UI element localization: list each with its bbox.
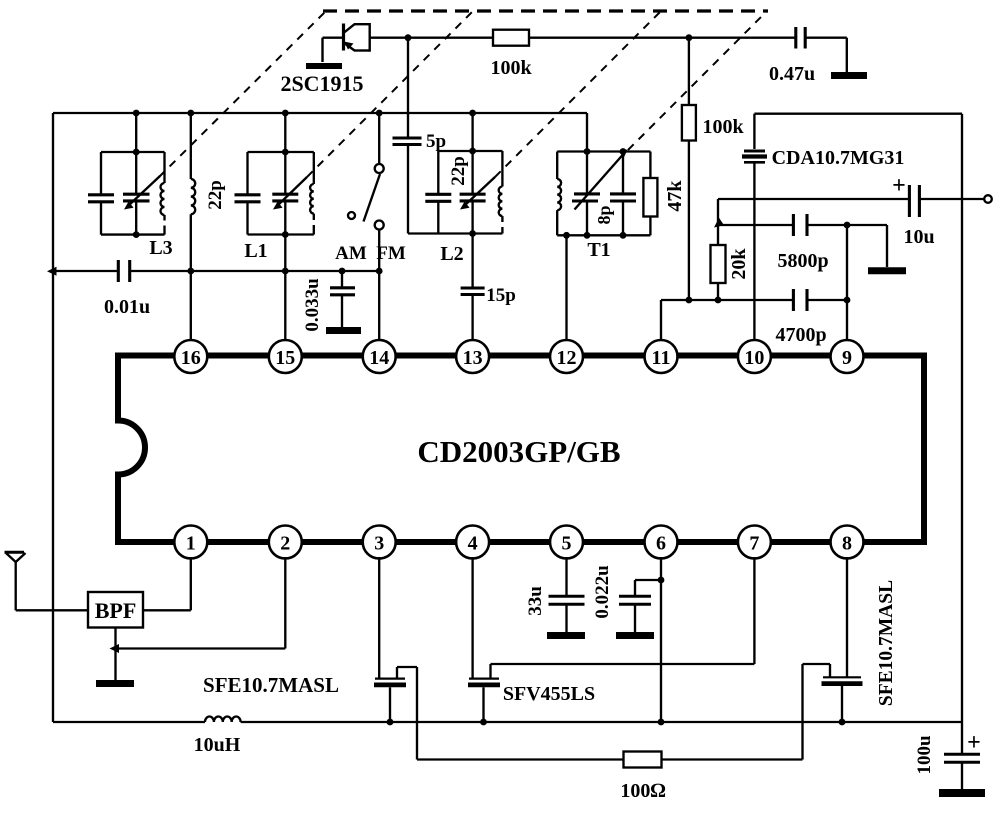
- wire (0.01u rail y=271): [53, 270, 118, 272]
- gang diagonal from L2 varactor: [495, 12, 660, 177]
- terminal (audio output): [984, 195, 992, 203]
- capacitor 0.47u: [794, 27, 797, 49]
- pin 11: [645, 340, 678, 373]
- ground (0.47u): [831, 72, 867, 79]
- capacitor 100u (bottom right): [944, 722, 980, 789]
- ground (0.022u): [616, 632, 654, 639]
- svg-text:4700p: 4700p: [775, 324, 826, 346]
- tank T1 box: [557, 113, 650, 235]
- svg-text:15p: 15p: [486, 285, 516, 306]
- ceramic filter (pin 4) SFV455LS: [468, 557, 500, 722]
- wire (pin 11 riser): [660, 300, 662, 340]
- wire (100 ohm line y=759.5): [417, 758, 624, 760]
- wire (4700p rail y=300): [661, 299, 793, 301]
- svg-text:22p: 22p: [448, 156, 469, 186]
- pin 2: [269, 526, 302, 559]
- wire (pin 2 to BPF node): [116, 647, 286, 649]
- inductor (L1 coil, right edge): [310, 152, 314, 235]
- svg-text:2SC1915: 2SC1915: [280, 71, 363, 96]
- switch AM/FM: [348, 113, 384, 340]
- svg-text:5800p: 5800p: [777, 250, 828, 272]
- node (filter 4 to bottom rail): [480, 719, 487, 726]
- svg-text:33u: 33u: [525, 586, 546, 616]
- wire (transistor output y=37.7): [370, 37, 493, 39]
- svg-text:20k: 20k: [728, 248, 750, 280]
- wire (L2 branch to 15p and pin 13): [471, 201, 473, 288]
- svg-text:3: 3: [374, 533, 384, 555]
- variable capacitor (T1): [572, 150, 628, 236]
- ceramic filter (pin 3) SFE10.7MASL: [374, 557, 417, 722]
- wire (left frame): [52, 113, 54, 722]
- capacitor 22p (L2 left edge): [425, 194, 451, 201]
- svg-text:8p: 8p: [594, 205, 614, 224]
- inductor (T1 coil, left edge): [557, 152, 561, 236]
- svg-text:+: +: [967, 730, 981, 756]
- svg-text:9: 9: [842, 347, 852, 369]
- variable capacitor (L1): [272, 177, 307, 210]
- svg-text:12: 12: [557, 347, 577, 369]
- wire (5800p rail y=225): [718, 224, 793, 226]
- pin 1: [174, 526, 207, 559]
- ceramic filter (pin 8) SFE10.7MASL: [803, 557, 863, 760]
- tank L2 box: [408, 113, 502, 234]
- gang dashed line (mechanical tuning link): [323, 9, 768, 12]
- svg-text:15: 15: [275, 347, 295, 369]
- pin 9: [831, 340, 864, 373]
- pin 4: [456, 526, 489, 559]
- pin 7: [738, 526, 771, 559]
- wire (BPF to pin 1): [143, 609, 191, 611]
- tank L3 box: [101, 113, 165, 235]
- node (T1 junctions): [584, 148, 591, 155]
- pin 13: [456, 340, 489, 373]
- inductor (L2 coil, right edge): [499, 151, 503, 234]
- pin 3: [363, 526, 396, 559]
- node (junction 5800p right): [844, 222, 851, 229]
- pin 14: [363, 340, 396, 373]
- svg-text:T1: T1: [587, 239, 610, 261]
- wire (pin 6 down to bottom rail): [660, 557, 662, 722]
- svg-text:5: 5: [562, 533, 572, 555]
- node (junctions y=300): [686, 297, 693, 304]
- wire (filter 3 tap down to 100ohm line): [416, 667, 418, 760]
- svg-text:7: 7: [749, 533, 759, 555]
- inductor 10uH: [205, 717, 241, 722]
- transistor Q1 2SC1915: [323, 23, 370, 62]
- capacitor (L1 fixed): [235, 195, 261, 202]
- capacitor (L3 fixed): [88, 195, 114, 202]
- svg-text:100Ω: 100Ω: [620, 780, 665, 802]
- pin 16: [174, 340, 207, 373]
- svg-text:0.47u: 0.47u: [769, 63, 815, 85]
- ground (5800p): [868, 267, 906, 274]
- wire (T1 to pin 12): [565, 235, 567, 340]
- svg-text:AM: AM: [335, 243, 367, 264]
- wire (top frame bus y=113): [53, 112, 587, 114]
- svg-text:100k: 100k: [702, 116, 744, 138]
- svg-text:CDA10.7MG31: CDA10.7MG31: [772, 147, 905, 169]
- gang diagonal from L3 varactor: [159, 12, 325, 177]
- wire (bottom frame): [53, 721, 205, 723]
- resistor 100k (horizontal, top): [493, 30, 529, 46]
- svg-text:100k: 100k: [490, 57, 532, 79]
- resistor 100k (vertical): [688, 38, 690, 105]
- node (junctions on y=271 rail): [47, 267, 57, 276]
- node (L3 rail junctions): [133, 149, 140, 156]
- wire (antenna to BPF): [16, 609, 88, 611]
- svg-text:10uH: 10uH: [194, 734, 241, 756]
- wire (L1 branch to pin 15): [284, 201, 286, 340]
- svg-text:14: 14: [369, 347, 389, 369]
- svg-text:6: 6: [656, 533, 666, 555]
- svg-text:22p: 22p: [205, 180, 226, 210]
- ceramic resonator CDA10.7MG31: [742, 114, 767, 340]
- svg-text:CD2003GP/GB: CD2003GP/GB: [417, 434, 620, 469]
- tank L1 box: [248, 113, 314, 235]
- antenna: [5, 552, 26, 610]
- capacitor 5800p: [793, 214, 807, 236]
- gang diagonal from L1 varactor: [307, 12, 472, 177]
- node (BPF junction): [110, 644, 120, 653]
- block BPF: [88, 592, 143, 628]
- node (bus junctions): [133, 110, 140, 117]
- svg-text:0.022u: 0.022u: [592, 565, 613, 619]
- svg-text:13: 13: [463, 347, 483, 369]
- capacitor 10u (output): [909, 185, 984, 217]
- node (L1 rail junctions): [282, 149, 289, 156]
- ground (transistor base): [306, 63, 342, 69]
- wire (CDA top link): [754, 113, 962, 115]
- pin 6: [645, 526, 678, 559]
- inductor 22p branch (to pin 16): [191, 113, 195, 340]
- svg-text:FM: FM: [376, 243, 406, 264]
- potentiometer 20k: [711, 199, 726, 300]
- svg-text:0.033u: 0.033u: [302, 278, 323, 332]
- svg-text:100u: 100u: [914, 735, 935, 775]
- node (junction at 100k branch): [686, 34, 693, 41]
- pin 10: [738, 340, 771, 373]
- capacitor 0.01u: [118, 260, 129, 282]
- wire (right frame): [961, 114, 963, 722]
- svg-text:10u: 10u: [903, 226, 934, 248]
- capacitor 0.022u (on pin 6 stub): [619, 580, 661, 632]
- wire (AGC line y=199): [718, 198, 909, 200]
- wire (filter 4 tap to pin 7): [491, 663, 755, 665]
- capacitor 0.033u: [330, 271, 355, 327]
- capacitor 33u (pin 5): [549, 557, 585, 632]
- svg-text:L1: L1: [244, 240, 267, 262]
- svg-text:L2: L2: [440, 243, 463, 265]
- pin 15: [269, 340, 302, 373]
- IC U1 CD2003GP/GB: [118, 356, 924, 543]
- svg-text:47k: 47k: [664, 180, 686, 212]
- svg-text:SFE10.7MASL: SFE10.7MASL: [876, 580, 897, 706]
- node (L2 rail junctions): [469, 148, 476, 155]
- ground (0.033u): [326, 327, 361, 334]
- wire (pin 9 riser): [846, 225, 848, 340]
- node (filter 3 to bottom rail): [387, 719, 394, 726]
- pin 8: [831, 526, 864, 559]
- capacitor 4700p: [793, 289, 807, 311]
- variable capacitor (L2): [460, 177, 495, 210]
- capacitor 15p: [461, 288, 485, 340]
- resistor 100ohm: [624, 752, 662, 768]
- ground (33u): [547, 632, 585, 639]
- svg-text:8: 8: [842, 533, 852, 555]
- svg-text:0.01u: 0.01u: [104, 296, 150, 318]
- pin 5: [550, 526, 583, 559]
- wire (to ground of 5800p): [886, 225, 888, 267]
- node (pin 6 junctions): [658, 577, 665, 584]
- node (junction at 5p branch): [405, 34, 412, 41]
- svg-text:BPF: BPF: [95, 598, 137, 623]
- svg-text:10: 10: [744, 347, 764, 369]
- node (filter 8 to bottom rail): [839, 719, 846, 726]
- svg-text:4: 4: [468, 533, 478, 555]
- ground (BPF): [96, 680, 134, 687]
- ground (100u): [939, 789, 985, 797]
- svg-text:2: 2: [280, 533, 290, 555]
- svg-text:11: 11: [652, 347, 671, 369]
- pin 12: [550, 340, 583, 373]
- svg-text:5p: 5p: [426, 131, 446, 152]
- inductor (L3 coil, right edge): [161, 152, 165, 235]
- variable capacitor (L3): [123, 176, 160, 235]
- capacitor 8p (T1): [610, 152, 636, 236]
- svg-text:+: +: [892, 173, 906, 199]
- svg-text:L3: L3: [149, 237, 172, 259]
- svg-text:SFV455LS: SFV455LS: [503, 683, 595, 705]
- resistor 47k (T1 right edge): [643, 152, 657, 236]
- svg-text:SFE10.7MASL: SFE10.7MASL: [203, 673, 339, 697]
- capacitor 5p (series into L2): [393, 38, 422, 234]
- wire (BPF bottom node): [114, 628, 116, 681]
- gang diagonal from T1 varactor: [628, 12, 766, 150]
- svg-text:1: 1: [186, 533, 196, 555]
- svg-text:16: 16: [181, 347, 201, 369]
